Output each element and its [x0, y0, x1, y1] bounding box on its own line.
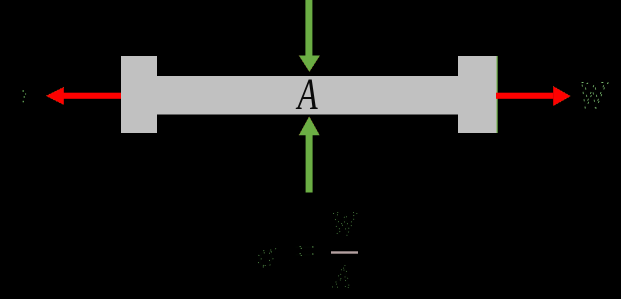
svg-text:W: W — [578, 73, 609, 116]
bar web (gray specimen shank) — [121, 76, 497, 115]
bar left end block — [121, 56, 157, 133]
svg-text:W: W — [331, 205, 358, 242]
bar right end block — [458, 56, 497, 133]
green top arrow (pointing down at section A) — [299, 0, 320, 72]
svg-text:A: A — [295, 70, 318, 119]
green edge line on right block — [497, 56, 498, 133]
green bottom arrow (pointing up at section A) — [299, 117, 320, 193]
formula fraction bar — [331, 251, 358, 253]
red right force arrow (W) — [496, 86, 571, 106]
label W left (ghost text, mostly clipped: few specks) — [23, 90, 27, 102]
svg-text:=: = — [291, 231, 317, 271]
svg-text:σ: σ — [257, 235, 276, 275]
red left force arrow (W) — [46, 87, 121, 105]
svg-text:A: A — [332, 258, 351, 296]
